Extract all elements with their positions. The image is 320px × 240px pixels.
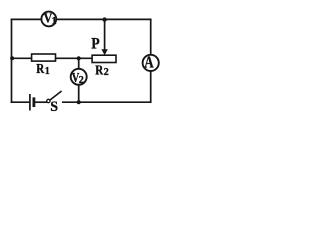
voltmeter U1 (V1) [41,12,56,27]
wire R1-to-R2 segment [56,57,93,59]
resistor R2 (rheostat track) [92,55,116,78]
wire right vertical upper [150,19,152,54]
svg-text:S: S [50,99,58,115]
wiper arrow P [91,35,108,55]
wire left vertical [11,19,13,102]
wire bottom-right segment [63,101,151,103]
svg-text:A: A [144,52,153,71]
svg-text:P: P [91,35,100,52]
junction node below V2 [77,100,81,104]
wire middle left (node to R1) [12,57,32,59]
svg-text:1: 1 [45,66,50,77]
svg-text:2: 2 [79,75,84,86]
ammeter A [143,52,159,71]
junction node on left wire [10,56,14,60]
wire bottom-left segment [12,101,30,103]
junction node above V2 [77,56,81,60]
svg-text:R: R [36,62,45,77]
switch S [47,91,62,115]
junction node on top wire [102,17,106,21]
svg-text:R: R [95,64,104,79]
resistor R1 [32,54,56,77]
wire right vertical lower [150,71,152,102]
battery cell [30,94,34,111]
svg-text:1: 1 [52,16,57,27]
svg-text:2: 2 [104,67,109,78]
wire top-right segment [56,18,150,20]
wire battery-to-switch [35,101,46,103]
wire V2 stem upper [78,58,80,69]
wire wiper P vertical [104,19,106,50]
wire top-left segment [12,18,42,20]
voltmeter U2 (V2) [71,69,87,86]
wire V2 stem lower [78,85,80,102]
